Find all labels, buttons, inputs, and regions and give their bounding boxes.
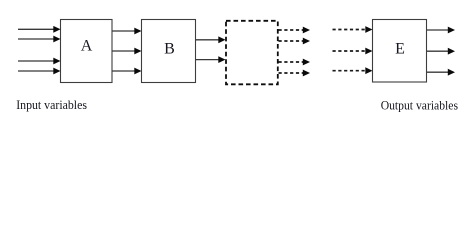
svg-text:B: B — [164, 41, 175, 58]
svg-text:Input variables: Input variables — [16, 98, 87, 112]
svg-text:E: E — [395, 41, 405, 58]
svg-text:A: A — [81, 38, 93, 55]
svg-text:Output variables: Output variables — [381, 99, 458, 113]
